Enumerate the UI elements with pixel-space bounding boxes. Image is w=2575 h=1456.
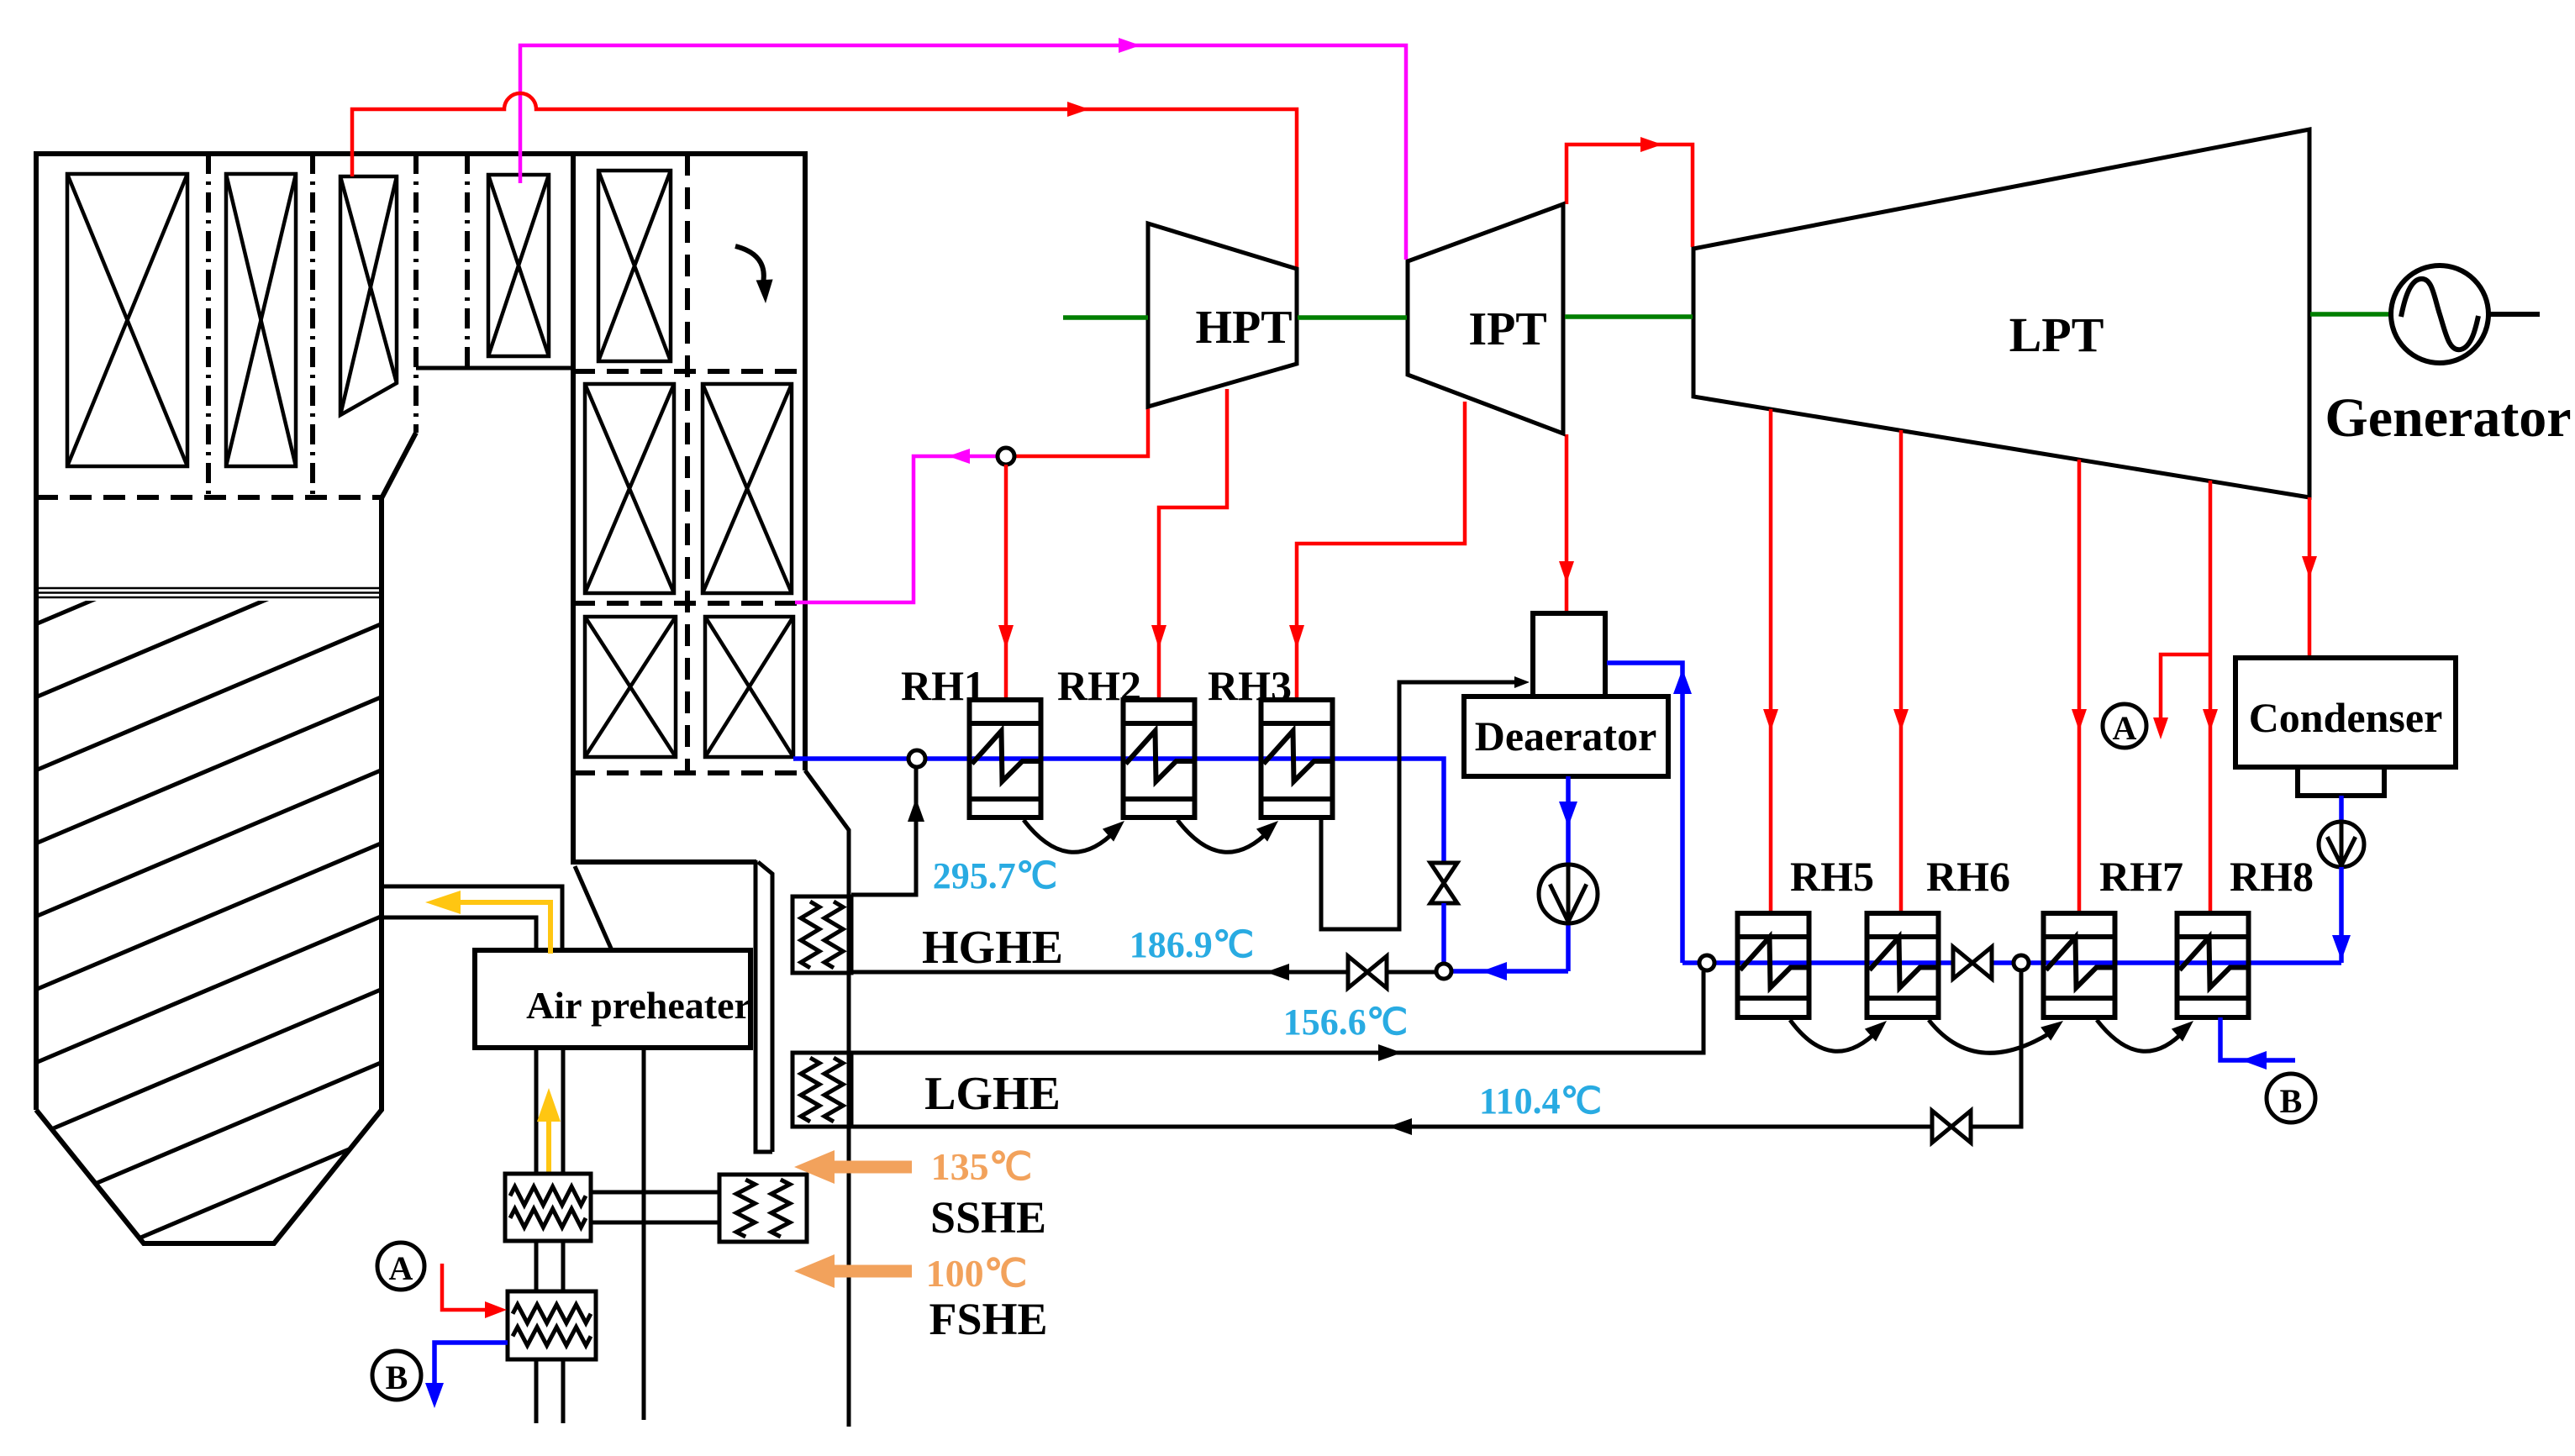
svg-text:LPT: LPT [2009,307,2104,362]
pipe: extraction 1 (red) to RH1 [1004,465,1008,698]
feedwater heater RH3 [1261,700,1333,817]
boiler divider 2 [310,154,315,497]
drain cascade arc RH6 to RH7 [1929,1020,2055,1053]
point A circle (turbine side) [2103,704,2146,748]
second pass dashed level 2 [573,601,805,606]
svg-text:Generator: Generator [2325,387,2571,449]
pipe: hot reheat (magenta) boiler to IPT [520,45,1406,260]
node LGHE supply [1699,955,1714,970]
feedwater heater RH6 [1867,913,1939,1017]
feedwater heater RH1 [970,700,1041,817]
pipe: condensate main through RH8-RH5 (blue) [1682,960,2341,965]
shaft segments (green) [1063,314,2391,318]
second pass dashed level 3 [573,770,805,775]
feedwater heater RH2 [1124,700,1195,817]
svg-text:RH2: RH2 [1057,662,1141,709]
pipe: branch to point A (red) [2161,654,2210,733]
svg-text:SSHE: SSHE [930,1192,1046,1243]
reheater bank 4 [488,175,549,356]
air preheater box [475,950,750,1048]
pipe: LPT extraction to RH8 (red) [2209,481,2213,912]
turbine LPT [1693,129,2309,497]
turbine IPT [1408,204,1563,434]
furnace grate triple lines [38,588,382,597]
svg-text:Deaerator: Deaerator [1475,712,1657,760]
furnace hopper [36,433,416,1243]
pipe: extraction 3 (red) IPT to RH3 [1297,402,1465,698]
node HPT exhaust [998,448,1014,465]
svg-text:RH3: RH3 [1208,662,1292,709]
svg-text:186.9℃: 186.9℃ [1130,924,1254,965]
svg-text:HGHE: HGHE [922,922,1063,974]
svg-text:100℃: 100℃ [926,1252,1028,1295]
point B circle (heater side left) [372,1351,421,1400]
air flow up arrow (yellow) [546,1117,551,1174]
svg-text:RH7: RH7 [2099,853,2183,900]
feedwater heater RH5 [1738,913,1809,1017]
SSHE flue-side coil [719,1175,807,1242]
svg-text:RH1: RH1 [901,662,985,709]
pipe: LGHE outlet line (black) [851,971,1704,1053]
boiler divider 1 [206,154,211,497]
pipe: LGHE inlet line (black) [851,971,2021,1127]
second pass divider dashed [685,154,690,773]
point A circle (heater side) [377,1243,424,1290]
superheater bank 1 [67,174,187,466]
SSHE air-side coil [505,1174,591,1241]
drain cascade arc RH7 to RH8 [2097,1020,2185,1051]
boiler divider 3 [413,154,419,433]
pipe: LPT exhaust to condenser (red) [2308,497,2312,656]
pipe: HGHE inlet line (black) [851,970,1436,975]
pipe: IPT exhaust (red) to LPT [1567,145,1693,247]
pipe: main steam (red) boiler to HPT [352,93,1297,267]
flue gas arrow 135C (orange) [819,1161,912,1174]
pipe: RH8 drain to point B (blue) [2220,1017,2295,1060]
pipe: condensate pump discharge (blue) [2339,867,2344,963]
valve RH6-RH7 [1953,947,1992,979]
second pass bank row2 right [703,384,792,593]
pipe: feedwater line through RH1-RH3 (blue) [793,759,1444,863]
boiler dashed section line left [36,495,382,500]
second pass outlet duct [756,860,772,1152]
svg-text:295.7℃: 295.7℃ [933,855,1057,896]
superheater bank 5 [598,171,671,361]
svg-text:RH8: RH8 [2230,853,2314,900]
second pass to air preheater slope [575,866,612,950]
air preheater gas outlet duct [642,1048,646,1420]
pipe: deaerator down to feed pump (blue) [1566,776,1571,865]
svg-text:Air preheater: Air preheater [526,984,751,1027]
deaerator vessel [1464,696,1668,776]
boiler outer walls [36,154,805,1110]
node HGHE junction [1436,964,1451,979]
node economizer junction [908,750,925,767]
second pass bank row3 left [585,617,676,757]
valve vertical [1430,863,1457,903]
feedwater heater RH7 [2044,913,2115,1017]
boiler ceiling line right portion [416,366,573,371]
feedwater pump [1539,865,1598,923]
drain cascade arc RH1 to RH2 [1024,820,1116,852]
drain cascade arc RH2 to RH3 [1177,820,1270,852]
second pass bank row2 left [585,384,674,593]
hot air to furnace (yellow) [458,902,550,954]
svg-text:Condenser: Condenser [2249,694,2443,741]
generator symbol [2391,265,2540,363]
pipe: cold reheat (magenta) junction to boiler reheater [795,456,1000,602]
svg-text:135℃: 135℃ [931,1145,1033,1188]
turbine HPT [1148,223,1297,407]
superheater bank 3 (slanted) [340,176,397,415]
pipe: LPT extraction to RH7 (red) [2077,460,2082,912]
second pass dashed level 1 [573,369,805,374]
pipe: A steam into FSHE (red) [442,1264,487,1310]
svg-text:LGHE: LGHE [924,1068,1061,1120]
svg-text:B: B [2280,1082,2303,1120]
pipe: feed pump discharge (blue) [1451,969,1568,974]
flue gas direction curved arrow [735,246,764,283]
pipe: LPT extraction to RH6 (red) [1899,430,1904,912]
flue gas duct to heat exchangers [805,770,849,1427]
air duct: air preheater down to SSHE [536,1048,563,1174]
pipe: LPT extraction to RH5 (red) [1769,409,1773,912]
condensate pump [2319,822,2364,867]
point B circle (heater side) [2267,1074,2315,1122]
pipe: hotwell to condensate pump (blue) [2339,796,2344,822]
pipe: extraction 4 (red) IPT to deaerator [1565,434,1569,612]
drain cascade arc RH5 to RH6 [1790,1020,1878,1051]
pipe: FSHE drain to B (blue) [434,1343,508,1385]
FSHE air-side coil [508,1291,596,1359]
duct furnace to air preheater [382,886,562,950]
pipe: extraction 2 (red) HPT to RH2 [1159,389,1227,698]
drain from RH3 to deaerator (black) [1321,682,1523,929]
air duct below FSHE [536,1359,563,1423]
node LGHE return [2014,955,2029,970]
svg-text:HPT: HPT [1195,302,1292,354]
svg-text:RH6: RH6 [1926,853,2010,900]
feedwater heater RH8 [2177,913,2249,1017]
pipe: HGHE outlet to feedwater line (black) [851,767,916,895]
valve on HGHE inlet [1348,956,1387,988]
svg-text:A: A [2113,709,2137,747]
deaerator head tank [1533,613,1605,696]
pipe: HPT exhaust (red) to junction [1012,405,1148,456]
boiler divider 4 [465,154,470,368]
pipe: valve to junction (blue) [1441,903,1446,964]
valve on LGHE inlet [1932,1111,1971,1143]
svg-text:B: B [386,1359,408,1396]
flue gas arrow 100C (orange) [819,1265,912,1278]
HGHE coil [793,896,851,973]
svg-text:FSHE: FSHE [929,1294,1047,1344]
svg-text:156.6℃: 156.6℃ [1283,1001,1408,1043]
condenser vessel [2235,658,2456,767]
svg-text:RH5: RH5 [1790,853,1874,900]
duct between SSHE coils [591,1192,719,1222]
pipe: RH5 outlet up to deaerator (blue) [1607,663,1682,963]
svg-text:A: A [389,1249,413,1287]
second pass bank row3 right [705,617,793,757]
svg-text:110.4℃: 110.4℃ [1479,1080,1602,1122]
condenser hotwell [2298,767,2384,796]
svg-text:IPT: IPT [1468,303,1546,355]
second pass left wall [573,154,756,862]
air duct between SSHE and FSHE [536,1241,563,1291]
superheater bank 2 [226,174,296,466]
LGHE coil [793,1053,851,1127]
